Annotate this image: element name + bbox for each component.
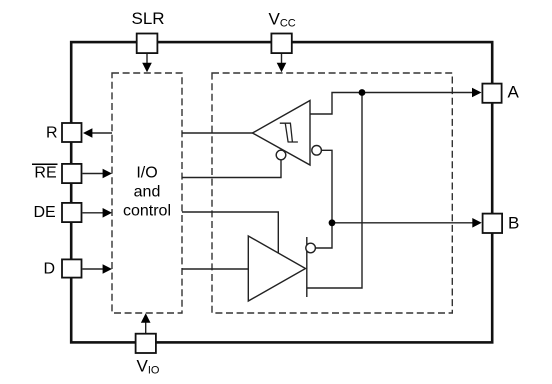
- wire RE enable from I/O block: [182, 160, 281, 178]
- arrow into pin B: [472, 218, 481, 228]
- wire SLR arrow: [146, 54, 148, 64]
- outer device boundary: [71, 42, 492, 342]
- svg-text:RE: RE: [34, 165, 56, 182]
- arrow SLR into I/O block: [142, 63, 152, 73]
- wire receiver non-inverting input to node A: [310, 93, 362, 115]
- arrow D into I/O block: [103, 264, 112, 274]
- pin SLR: [137, 34, 158, 54]
- wire VCC arrow: [281, 54, 283, 64]
- op-amp driver U2: [248, 236, 305, 301]
- wire D input to driver: [182, 268, 248, 270]
- wire D pin arrow: [83, 268, 104, 270]
- pin RE: [62, 164, 82, 183]
- driver/receiver dashed block: [212, 73, 452, 313]
- pin R: [62, 123, 82, 142]
- pin B: [483, 214, 503, 233]
- junction node B: [329, 219, 336, 226]
- wire R output (receiver to I/O block): [182, 132, 253, 134]
- driver inverting output bubble: [306, 243, 316, 253]
- hysteresis symbol: [280, 123, 298, 142]
- op-amp receiver U1: [253, 101, 311, 166]
- svg-text:SLR: SLR: [132, 9, 165, 28]
- wire DE pin arrow: [83, 212, 104, 214]
- overline for RE: [32, 163, 58, 165]
- receiver inverting input bubble: [312, 146, 322, 156]
- pin VCC: [271, 34, 291, 54]
- wire node B to pin B: [332, 222, 473, 224]
- I/O and control dashed block: [112, 73, 182, 313]
- arrow VIO into I/O block: [141, 313, 151, 323]
- svg-text:B: B: [508, 213, 519, 232]
- arrow VCC into block: [277, 63, 287, 73]
- svg-text:R: R: [46, 124, 58, 141]
- wire receiver inverting input to node B: [315, 150, 332, 248]
- svg-text:I/O: I/O: [136, 165, 157, 182]
- arrow into pin R: [83, 128, 92, 138]
- pin VIO: [136, 334, 156, 353]
- arrow into pin A: [472, 88, 482, 98]
- junction node A: [359, 89, 366, 96]
- wire driver output to node A: [307, 93, 362, 289]
- arrow DE into I/O block: [103, 208, 112, 218]
- svg-text:and: and: [134, 184, 161, 201]
- wire VIO arrow: [145, 321, 147, 334]
- receiver enable bubble: [276, 150, 286, 160]
- svg-text:DE: DE: [34, 204, 56, 221]
- pin D: [62, 259, 82, 277]
- svg-text:A: A: [508, 83, 520, 102]
- wire RE pin arrow: [83, 173, 104, 175]
- wire DE enable from I/O block: [182, 212, 278, 253]
- wire node A to pin A: [362, 92, 473, 94]
- driver output bar: [306, 237, 308, 297]
- pin DE: [62, 203, 82, 222]
- svg-text:control: control: [123, 203, 171, 220]
- svg-text:D: D: [44, 261, 56, 278]
- wire R pin arrow: [92, 132, 112, 134]
- pin A: [482, 84, 501, 103]
- arrow RE into I/O block: [103, 169, 112, 179]
